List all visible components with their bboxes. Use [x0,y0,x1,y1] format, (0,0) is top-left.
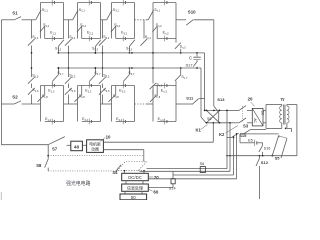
battery En,3 on top edge [164,83,166,89]
svg-text:En,2: En,2 [163,30,170,35]
switch S5 cluster blade 1 [272,136,278,156]
svg-text:强光电电路: 强光电电路 [66,180,91,187]
module Mn row B outline [152,86,154,122]
switch S2,7 blade [89,75,95,82]
svg-text:S1,5: S1,5 [32,73,39,78]
svg-text:S1,1: S1,1 [42,8,49,13]
switch S3,8 blade [109,95,115,101]
wire Sn,3 connection to bus1 [175,39,177,43]
switch S14 box [171,179,175,184]
wire S2 to module 1 row B [22,103,41,105]
wire drop v3 [233,137,235,175]
battery E2,2 on bottom edge of M2 [88,36,90,42]
wire inverter to primary loop [263,109,266,111]
module M2 row A outline [77,3,79,39]
switch S1,5 blade [28,77,35,84]
node panel corners [124,170,126,172]
controller box 50 [120,194,147,200]
switch Sn,2 blade [152,26,157,32]
svg-text:S17: S17 [185,62,193,67]
wire lower right rail [227,155,297,157]
wire inter-column vertical at x=144.0 [143,20,145,39]
switch S4 blade [115,165,121,172]
node inter-vertical bus junctions [31,52,33,54]
node row B bus junctions [58,67,60,69]
switch K2 pole 2 blade [239,118,246,123]
switch S13 blade [214,106,219,112]
wire E5 branch [240,142,255,144]
svg-text:C: C [189,55,192,60]
switch S3,6 blade [99,88,106,95]
wire K1 top rail [205,109,226,111]
label 70 with leader [148,176,153,178]
wire right vertical drop from S10 [213,20,215,106]
battery E3,2 on bottom edge of M3 [122,36,124,42]
battery E1,2 on bottom edge of M1 [51,36,53,42]
switch S2 blade [14,101,21,104]
switch S5 cluster link [279,136,287,138]
wire module n row B to S11 [176,103,192,105]
wire primary loop bottom to S3 [251,129,266,131]
capacitor C plates [193,56,200,58]
switch S1,6 blade [28,88,35,95]
svg-text:E1,3: E1,3 [48,88,55,93]
switch S12 blade and drop [258,156,260,158]
switch S2,1 blade [73,10,78,20]
wire S15 long rail to S5 cluster [240,133,279,135]
transformer core lines [283,105,285,125]
svg-text:E2,2: E2,2 [87,30,94,35]
wire module n left edge extension [152,39,154,84]
wire C to S17 [196,60,198,62]
wire inter-column vertical row B [102,84,104,89]
node M2 bus1 junction [95,52,97,54]
module M2 row B outline [77,86,79,122]
wire M1-M2 link row A [64,19,73,21]
wire bus2 right corner drop [200,68,202,117]
node row B bus junctions [129,67,131,69]
node secondary bottom corner [285,127,287,129]
svg-text:S1: S1 [12,10,18,15]
node M3 bus1 junction [129,52,131,54]
battery En,4 on bottom edge [164,119,166,125]
wire Sn,7 connection from bus2 [180,68,182,75]
switch S7 blade [48,137,65,145]
wire S14 vertical [172,171,174,178]
svg-text:60: 60 [153,189,158,194]
wire S3,3 drop to bus [128,46,130,53]
battery E2,1 on top edge of M2 [88,0,90,5]
wire dotted control line 1 [48,155,144,157]
module M1 row B outline [40,86,42,122]
svg-text:70: 70 [154,175,159,180]
node M1 bus1 junction [58,52,60,54]
converter box 40 [71,141,83,151]
wire K1 to K2 bottom [226,122,239,124]
wire S2,7 drop from bus2 [94,68,96,75]
switch S1 blade [14,17,21,20]
wire S8 vertical [47,145,49,159]
wire secondary loop [286,105,288,107]
svg-text:20: 20 [248,97,253,102]
wire inter-column vertical row B [31,84,33,89]
switch S1,8 blade [38,95,44,101]
battery En,2 on bottom edge of Mn [164,36,166,42]
node K1 contacts [206,110,208,112]
solar panel dashed parallelogram [117,162,147,171]
wire S15 left rail [227,136,232,138]
switch S2,4 blade [65,39,72,46]
svg-text:Sn,3: Sn,3 [180,45,187,50]
switch S3,7 blade [123,75,129,82]
switch S1,2 blade [40,26,45,32]
wire left rail corner to S7 [1,144,48,146]
switch S3,1 blade [107,10,112,20]
switch K2 gang link dashed [242,106,244,122]
module M3 row B outline [111,86,113,122]
svg-text:S10: S10 [188,10,196,15]
wire bus1 right corner drop [204,53,206,111]
node bus junction dots [95,52,97,54]
switch K2 pole 1 blade [239,106,246,111]
wire box60 to box50 [124,191,126,194]
svg-text:DC: DC [260,111,264,116]
wire K1 bottom rail [206,122,226,124]
svg-text:DC/DC: DC/DC [128,175,142,180]
switch S5 cluster blade 2 [281,138,287,158]
switch K1 crossing blade 2 [207,110,220,122]
switch S1,1 blade [36,10,41,20]
switch S3,2 blade [111,26,116,32]
svg-text:S7: S7 [52,146,58,151]
wire panel corner right dashes [138,170,144,172]
wire E5 to S16 [257,142,263,144]
node inter-vertical bus junctions [68,52,70,54]
wire left edge between blades [152,89,154,95]
wire S1 to module 1 [22,19,36,21]
svg-text:S13: S13 [217,97,225,102]
wire inter-column vertical at x=68.5 [68,20,70,39]
switch S1,4 blade [28,39,35,46]
svg-text:50: 50 [131,195,136,200]
wire K2 to inverter bottom [247,122,252,124]
module M3 row A outline [111,3,113,39]
module M1 row A outline [40,3,42,39]
switch S2,6 blade [65,88,72,95]
svg-text:Sn,1: Sn,1 [154,8,161,13]
svg-text:E1,2: E1,2 [50,30,57,35]
svg-text:K2: K2 [219,132,225,137]
wire bus 2 horizontal [58,67,201,69]
switch S1,3 blade [58,40,64,47]
battery E2,4 on bottom edge [88,119,90,125]
svg-text:S1,6: S1,6 [32,88,39,93]
wire drop v4 [236,134,238,179]
switch K1 crossing blade 1 [207,110,220,122]
transformer Tr primary winding [280,106,282,123]
battery E2,3 on top edge [88,83,90,89]
wire drop v1 from K1 rails [226,110,228,168]
wire S8 lower stub [47,168,49,171]
switch S6 box [200,167,205,173]
battery E3,4 on bottom edge [122,119,124,125]
svg-text:S1,4: S1,4 [32,35,39,40]
svg-text:信息处理: 信息处理 [127,185,143,191]
wire M1-M2 link row B [64,103,78,105]
battery E3,3 on top edge [122,83,124,89]
switch Sn,5 blade on left edge [150,83,157,89]
wire S1,3 drop to bus [57,46,59,53]
wire S3,7 drop from bus2 [128,68,130,75]
switch S2,2 blade [77,26,82,32]
svg-text:S3,6: S3,6 [103,88,110,93]
wire inter-column vertical at x=102.5 [102,20,104,39]
wire S2 feeder [1,103,14,105]
node inter-vertical bus junctions [102,52,104,54]
wire S3 corner down [240,133,244,135]
svg-text:S2,1: S2,1 [79,8,86,13]
wire S16 to lower rail [262,152,264,156]
switch Sn,1 blade [148,10,153,20]
svg-text:S16: S16 [264,147,271,151]
DC/DC converter box 70 [122,173,149,180]
inverter box 20 DC/AC [252,108,263,126]
wire drop v2 [229,123,231,172]
transformer Tr secondary winding [287,106,289,123]
svg-text:S2,5: S2,5 [69,73,76,78]
wire dashed continuation row B [135,103,147,105]
switch S1,7 blade [52,75,58,82]
svg-text:S11: S11 [186,95,194,100]
svg-text:E2,3: E2,3 [85,88,92,93]
svg-text:动器: 动器 [91,146,99,151]
switch S3 blade [244,129,251,133]
svg-text:S9: S9 [207,117,211,121]
wire S1,7 drop from bus2 [57,68,59,75]
wire box40 to motor driver [82,144,86,146]
wire M2-M3 link row A [101,19,107,21]
switch S3,4 blade [99,39,106,46]
svg-text:AC: AC [253,118,257,123]
svg-text:K1: K1 [196,128,202,133]
wire motor driver to K1 zone [103,141,213,143]
svg-text:E3,3: E3,3 [119,88,126,93]
wire M2-M3 link row B [101,103,112,105]
switch S15 blade [232,133,239,137]
wire S1 feeder from left edge [1,19,14,21]
wire bottom-left edge stub [0,192,2,200]
svg-text:S3,1: S3,1 [113,8,120,13]
wire S7 to box 40 [67,144,71,146]
wire dotted control line 2 [48,170,117,172]
battery E1,1 on top edge of M1 [51,0,53,5]
wire panel to DC/DC verticals [123,171,125,174]
svg-text:40: 40 [74,145,80,150]
wire inter-column vertical row B [68,84,70,89]
switch S17 blade [193,61,197,66]
switch S2,8 blade [75,95,81,101]
svg-text:S2,4: S2,4 [69,35,76,40]
wire DCDC to box60 [125,181,127,184]
wire primary loop rectangle [265,105,267,129]
svg-text:S2,6: S2,6 [69,88,76,93]
wire dashed continuation row A [135,19,147,21]
switch S2,5 blade [65,77,72,84]
switch Sn,4 blade [140,39,147,46]
svg-text:S5: S5 [275,155,281,160]
switch Sn,8 blade [150,95,156,101]
svg-text:Tr: Tr [281,97,285,102]
switch S3,3 blade [129,40,135,47]
svg-text:S3: S3 [243,124,249,129]
svg-text:S2: S2 [12,95,18,100]
svg-text:En,3: En,3 [161,88,168,93]
battery E1,3 on top edge [51,83,53,89]
node S7 junction [47,155,49,157]
wire motor driver to panel corner [103,149,143,151]
svg-text:E3,2: E3,2 [121,30,128,35]
wire bus 1 horizontal [58,52,204,54]
svg-text:S4: S4 [112,170,118,175]
svg-text:10: 10 [106,135,111,140]
wire S17 to bus2 [196,67,198,68]
wire inter-column vertical at x=31.5 [31,20,33,39]
module Mn row A outline [152,3,154,39]
svg-text:Sn,7: Sn,7 [181,75,188,80]
switch S11 blade [192,99,199,105]
wire S2,3 drop to bus [94,46,96,53]
wire box60 output rail [148,187,173,189]
switch S8 blade [45,159,49,168]
node row B bus junctions [95,67,97,69]
svg-text:S6: S6 [200,162,205,166]
wire K2 to inverter top [247,109,252,111]
svg-text:E5: E5 [248,139,253,143]
switch S3,5 blade [99,77,106,84]
wire module n to S10 [176,19,186,21]
motor driver box 10 [87,140,104,153]
wire K1 to K2 top [226,109,239,111]
wire S10 to right drop [194,19,214,21]
svg-text:S3,5: S3,5 [103,73,110,78]
signal processing box 60 [122,184,149,191]
svg-text:S12: S12 [261,160,269,165]
battery E3,1 on top edge of M3 [122,0,124,5]
svg-text:Sn,4: Sn,4 [145,35,152,40]
node rail junctions [226,155,228,157]
battery E1,4 on bottom edge [51,119,53,125]
switch S2,3 blade [95,40,101,47]
battery En,1 on top edge of Mn [164,0,166,5]
label 60 with leader [148,189,152,191]
wire left vertical rail [0,20,2,145]
switch S16 blade [259,145,263,152]
svg-text:S3,4: S3,4 [103,35,110,40]
svg-text:S8: S8 [36,163,42,168]
switch S10 blade [186,20,193,26]
battery E5 plates [254,140,256,146]
wire S13 drop [218,112,220,122]
wire C branch from bus1 [196,53,198,57]
wire S11 contact to vertical [199,98,204,100]
